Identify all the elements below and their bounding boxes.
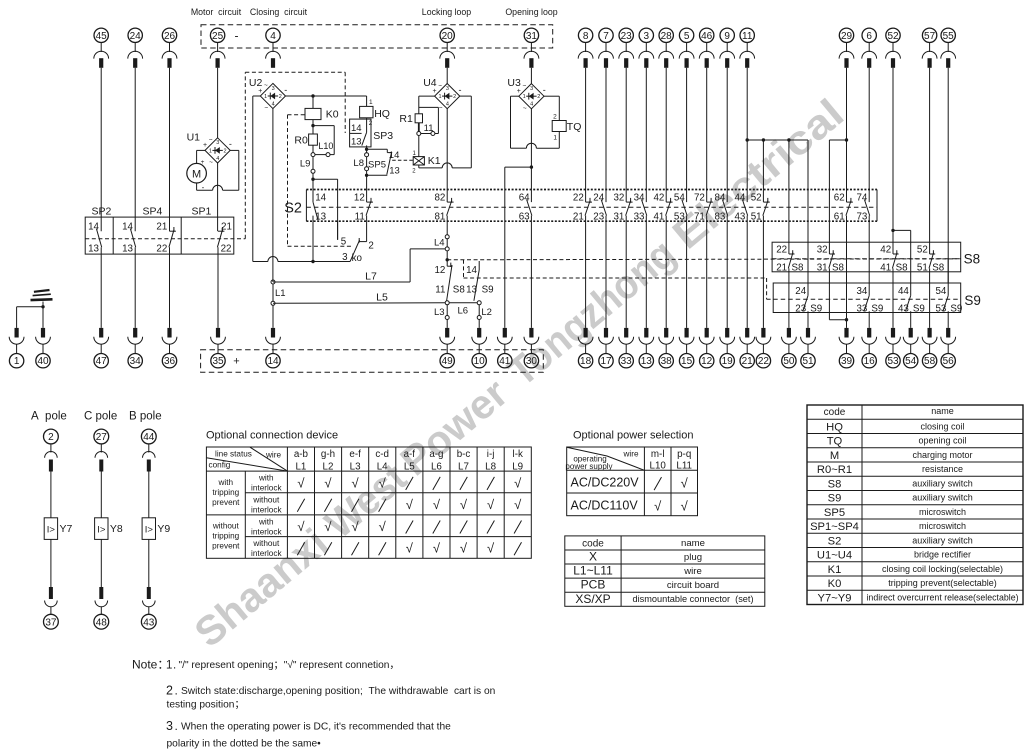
svg-text:√: √ [324,475,332,490]
svg-text:52: 52 [887,31,899,42]
svg-text:testing position；: testing position； [167,700,245,711]
svg-text:interlock: interlock [251,549,282,558]
wire branch to terminal 41 [505,167,532,328]
svg-text:12: 12 [434,265,445,276]
svg-text:K1: K1 [428,155,441,167]
svg-text:√: √ [681,499,689,514]
svg-text:√: √ [487,497,495,512]
bridge rectifier U4 [423,77,461,112]
svg-text:ko: ko [352,253,363,264]
terminal 41 bottom socket [497,328,512,368]
S8 contact 22/21 [776,242,804,273]
terminal 7 top plug [599,28,614,68]
svg-text:with: with [258,518,274,527]
wire R0 bypass loop L10 [313,126,334,157]
svg-text:22: 22 [156,244,167,255]
wire L5 [273,292,445,304]
terminal 14 bottom socket [266,328,281,368]
svg-text:10: 10 [474,356,486,367]
svg-text:42: 42 [653,193,664,204]
svg-text:1: 1 [369,99,373,106]
svg-text:X: X [589,550,597,564]
svg-text:a-b: a-b [294,449,309,460]
svg-text:√: √ [460,497,468,512]
wire through S9 col 32-31 branch [829,283,848,321]
overcurrent release Y8 [95,518,123,540]
svg-text:81: 81 [434,211,445,222]
svg-text:33: 33 [621,356,633,367]
S9 contact 34/33 [856,283,883,315]
svg-text:63: 63 [519,211,530,222]
wire link L8 [353,148,368,190]
svg-text:.: . [175,719,178,733]
wire terminal 5 down to S2 [686,68,688,190]
terminal 10 bottom socket [472,328,487,368]
wire U4 bottom to S2 [446,109,448,190]
terminal 8 top plug [578,28,593,68]
svg-text:L1~L11: L1~L11 [573,564,613,578]
terminal 13 bottom socket [639,328,654,368]
svg-text:50: 50 [783,356,795,367]
svg-text:53: 53 [887,356,899,367]
terminal 29 top plug [839,28,854,68]
svg-text:41: 41 [499,356,511,367]
svg-text:√: √ [324,519,332,534]
svg-text:11: 11 [424,123,434,134]
svg-text:31: 31 [817,263,828,274]
svg-text:37: 37 [45,617,57,628]
wire S8 to S9 x=788.9 [788,272,790,283]
wire SP4 contact to terminal 34 [134,247,136,328]
svg-text:without: without [212,522,240,531]
svg-text:~: ~ [264,82,268,89]
svg-text:.: . [173,660,176,672]
svg-text:57: 57 [924,31,936,42]
svg-text:U2: U2 [249,77,263,89]
svg-text:27: 27 [96,432,108,443]
svg-text:√: √ [297,519,305,534]
svg-text:wire: wire [265,451,281,460]
wire U2 left to lower loop [253,96,315,263]
svg-text:40: 40 [37,356,49,367]
wire SP1 contact to terminal 35 [217,247,219,328]
svg-text:PCB: PCB [581,578,606,592]
wire S2 down to terminal 19 [726,221,728,328]
note line 4 [166,719,451,733]
svg-text:code: code [824,407,846,418]
svg-text:Y7: Y7 [60,523,73,535]
svg-text:4: 4 [530,102,533,108]
wire S9 to terminal 54 [910,313,912,328]
svg-text:S2: S2 [828,535,842,547]
coil HQ [360,96,390,120]
svg-text:without: without [252,539,280,548]
svg-text:51: 51 [802,356,814,367]
svg-text:K0: K0 [828,578,842,590]
svg-text:14: 14 [122,222,133,233]
svg-text:auxiliary switch: auxiliary switch [912,493,973,503]
svg-text:L2: L2 [323,461,334,472]
svg-text:14: 14 [315,193,326,204]
svg-text:K1: K1 [828,564,842,576]
svg-text:S9: S9 [950,304,962,315]
svg-text:22: 22 [221,244,232,255]
svg-text:Motor circuit: Motor circuit [191,7,242,17]
svg-text:38: 38 [661,356,673,367]
svg-text:L5: L5 [404,461,415,472]
svg-text:prevent: prevent [212,498,240,507]
svg-text:Closing circuit: Closing circuit [250,7,308,17]
terminal 55 top plug [941,28,956,68]
terminal 33 bottom socket [619,328,634,368]
dashed box bottom plugs [201,350,544,373]
svg-text:43: 43 [143,617,155,628]
svg-text:b-c: b-c [457,449,471,460]
terminal 39 bottom socket [839,328,854,368]
svg-text:R0~R1: R0~R1 [817,464,852,476]
wire terminal 26 to SP4 second contact [169,68,171,231]
svg-text:S8: S8 [453,284,466,295]
wire terminal 25 to U1 [217,68,219,138]
wire U4 left to R1 [419,96,435,114]
S9 contact 44/43 [898,283,925,315]
svg-text:tripping prevent(selectable): tripping prevent(selectable) [888,578,997,588]
svg-text:S8: S8 [792,263,805,274]
wire S2 down to terminal 33 [625,221,627,328]
svg-text:39: 39 [841,356,853,367]
wire S8 to S9 x=910.7 [910,272,912,283]
svg-text:√: √ [514,475,522,490]
svg-text:interlock: interlock [251,528,282,537]
svg-text:~: ~ [523,105,527,112]
svg-text:interlock: interlock [251,484,282,493]
svg-text:a-g: a-g [429,449,443,460]
svg-text:R1: R1 [399,113,413,125]
dashed link to S8 row [447,259,961,260]
svg-text:L1: L1 [275,288,286,299]
S9 contact 24/23 [795,283,822,315]
svg-text:28: 28 [661,31,673,42]
svg-text:51: 51 [751,211,762,222]
svg-text:Locking loop: Locking loop [422,7,472,17]
terminal 31 top plug [524,28,539,68]
svg-text:56: 56 [943,356,955,367]
svg-text:c-d: c-d [375,449,389,460]
svg-text:without: without [252,495,280,504]
wire U2 right output [286,94,367,97]
svg-text:41: 41 [880,263,891,274]
wire terminal 23 down to S2 [625,68,627,190]
svg-text:71: 71 [694,211,705,222]
svg-text:M: M [830,450,839,462]
svg-text:~: ~ [439,105,443,112]
svg-text:14: 14 [351,123,362,134]
wire terminal 8 down to S2 [585,68,587,190]
terminal 12 bottom socket [699,328,714,368]
svg-text:closing coil locking(selectabl: closing coil locking(selectable) [882,564,1003,574]
svg-text:L9: L9 [300,158,311,169]
svg-text:83: 83 [714,211,725,222]
svg-text:~: ~ [264,105,268,112]
svg-text:I>: I> [145,525,154,536]
wire S2 down to terminal 12 [706,221,708,328]
svg-text:1: 1 [264,94,267,100]
svg-text:58: 58 [924,356,936,367]
dashed link to S9 row [464,260,774,300]
svg-text:14: 14 [389,150,400,161]
S2 contact 54/53 [674,190,687,223]
wire S2 62 down [846,221,848,242]
svg-text:1: 1 [523,94,526,100]
wire through S9 col 50 [788,283,790,313]
svg-text:S9: S9 [913,304,925,315]
svg-text:55: 55 [943,31,955,42]
svg-text:L7: L7 [365,270,377,282]
terminal 11 top plug [740,28,755,68]
wire U1 plus to motor [197,150,205,163]
terminal 28 top plug [659,28,674,68]
svg-text:21: 21 [156,222,167,233]
terminal 49 bottom socket [440,328,455,368]
svg-text:1: 1 [166,660,172,672]
svg-text:5: 5 [684,31,690,42]
S2 contact 74/73 [856,190,869,223]
terminal 18 bottom socket [578,328,593,368]
svg-text:45: 45 [96,31,108,42]
svg-text:24: 24 [593,193,604,204]
svg-text:indirect overcurrent release(s: indirect overcurrent release(selectable) [866,592,1018,602]
svg-text:13: 13 [122,244,133,255]
svg-text:21: 21 [742,356,754,367]
svg-text:L2: L2 [481,307,492,318]
svg-text:32: 32 [817,244,828,255]
svg-text:13: 13 [315,211,326,222]
svg-text:2: 2 [369,120,373,127]
pole terminal 43 [141,539,156,629]
svg-text:g-h: g-h [321,449,335,460]
wire through S9 col 53 [892,283,894,328]
svg-text:closing coil: closing coil [920,421,964,431]
svg-text:22: 22 [758,356,770,367]
svg-text:4: 4 [446,102,449,108]
auxiliary switch S2 box [284,190,877,222]
svg-text:with: with [258,474,274,483]
wire S9 to terminal 56 [947,313,949,328]
svg-text:I>: I> [97,525,106,536]
wire K0 to R0 [311,120,314,134]
svg-text:1: 1 [553,134,557,141]
svg-text:1: 1 [438,94,441,100]
svg-text:K0: K0 [326,108,339,120]
S2 contact 84/83 [714,190,727,223]
svg-text:1: 1 [209,148,212,154]
svg-text:~: ~ [523,82,527,89]
wire S9 to terminal 50 [788,313,790,328]
terminal 46 top plug [699,28,714,68]
svg-text:13: 13 [88,244,99,255]
svg-text:microswitch: microswitch [919,521,966,531]
svg-text:+: + [203,142,207,149]
svg-text:73: 73 [856,211,867,222]
svg-text:S8: S8 [828,478,842,490]
relay K1 [412,155,441,175]
svg-text:S9: S9 [828,493,842,505]
svg-text:e-f: e-f [349,449,361,460]
svg-text:4: 4 [270,31,276,42]
bus tap from wire 11 [746,138,809,189]
terminal 35 bottom socket [211,328,226,368]
svg-text:AC/DC110V: AC/DC110V [571,499,639,513]
terminal 24 top plug [128,28,143,68]
svg-text:23: 23 [795,304,806,315]
S8 contact 32/31 [817,242,845,273]
svg-text:√: √ [352,519,360,534]
svg-text:prevent: prevent [212,542,240,551]
svg-text:circuit board: circuit board [667,580,719,591]
wire through S8 col 54 [910,242,912,272]
svg-text:34: 34 [634,193,645,204]
terminal 20 top plug [440,28,455,68]
svg-text:8: 8 [583,31,589,42]
overcurrent release Y7 [44,518,72,540]
wire through S8 col 39 [846,242,848,272]
svg-text:43: 43 [734,211,745,222]
terminal 26 top plug [162,28,177,68]
terminal 47 bottom socket [94,328,109,368]
svg-text:84: 84 [714,193,725,204]
svg-text:+: + [201,159,205,166]
wire L6 link [449,303,477,317]
wire S2 down to S9 col 51 [807,190,809,243]
wire terminal 9 down to S2 [726,68,728,190]
svg-text:52: 52 [917,244,928,255]
svg-text:opening coil: opening coil [918,436,966,446]
svg-text:21: 21 [221,222,232,233]
S2 contact 42/41 [653,190,672,223]
svg-text:Switch state:discharge,opening: Switch state:discharge,opening position;… [181,686,495,697]
coil K0 [305,96,339,120]
bridge rectifier U1 [187,131,232,166]
svg-text:25: 25 [212,31,224,42]
svg-text:16: 16 [864,356,876,367]
svg-text:S8: S8 [964,252,981,267]
terminal 36 bottom socket [162,328,177,368]
wire through S8 col 56 [947,259,949,272]
terminal 50 bottom socket [782,328,797,368]
wire terminal 52 down [892,68,894,242]
svg-text:+: + [233,356,239,368]
svg-text:U3: U3 [507,77,521,89]
motor M circle [187,159,207,192]
wire S8 to S9 x=893.0 [892,272,894,283]
svg-text:S9: S9 [482,284,494,295]
svg-text:33: 33 [634,211,645,222]
wire terminal 31 to U3 [530,68,532,84]
wire S8 to S9 x=829.4 [828,272,830,283]
terminal 4 top plug [266,28,281,68]
svg-text:20: 20 [442,31,454,42]
svg-text:49: 49 [442,356,454,367]
svg-text:4: 4 [216,156,219,162]
svg-text:S8: S8 [832,263,845,274]
wire S8 to S9 x=869.2 [868,272,870,283]
bridge rectifier U2 [249,77,287,112]
pole terminal 2 [44,429,59,518]
svg-text:23: 23 [593,211,604,222]
svg-text:2: 2 [453,94,456,100]
wire S2 down to terminal 21 [746,221,748,328]
wire terminal 45 to SP2 contact [100,68,102,231]
svg-text:Opening loop: Opening loop [505,7,557,17]
svg-text:S9: S9 [964,293,981,308]
svg-text:44: 44 [734,193,745,204]
terminal 6 top plug [862,28,877,68]
pole terminal 27 [94,429,109,518]
svg-text:Y7~Y9: Y7~Y9 [818,592,852,604]
svg-text:2: 2 [279,94,282,100]
table code name big [807,405,1023,605]
svg-text:U1: U1 [187,131,201,143]
svg-text:64: 64 [519,193,530,204]
svg-text:Optional power selection: Optional power selection [573,430,693,442]
pole terminal 44 [141,429,156,518]
svg-text:18: 18 [580,356,592,367]
terminal 34 bottom socket [128,328,143,368]
S8 contact 52/51 [917,242,945,273]
wire terminal 55 down to S9 [947,68,949,283]
svg-text:13: 13 [466,284,477,295]
wire S2 down to terminal 22 [762,221,764,328]
svg-text:5: 5 [341,236,347,247]
svg-text:a-f: a-f [404,449,416,460]
svg-text:22: 22 [573,193,584,204]
svg-text:tripping: tripping [212,532,239,541]
svg-text:2: 2 [48,432,54,443]
svg-text:61: 61 [834,211,845,222]
svg-text:11: 11 [355,211,365,222]
dashed K0 select box [288,115,352,247]
svg-text:microswitch: microswitch [919,507,966,517]
svg-text:L1: L1 [295,461,306,472]
wire U3 left loop [511,96,537,148]
wire S2 82 to L4 link [434,221,449,266]
svg-text:SP1: SP1 [192,206,212,218]
svg-text:3: 3 [530,86,533,92]
svg-text:3: 3 [166,719,173,733]
svg-text:S8: S8 [932,263,945,274]
svg-text:24: 24 [130,31,142,42]
svg-text:72: 72 [694,193,705,204]
wire L2 link [477,301,492,328]
svg-text:resistance: resistance [922,464,963,474]
terminal 56 bottom socket [941,328,956,368]
terminal 16 bottom socket [862,328,877,368]
wire S2 74 down [868,221,870,242]
svg-text:√: √ [460,541,468,556]
svg-text:41: 41 [653,211,664,222]
svg-text:33: 33 [856,304,867,315]
svg-text:HQ: HQ [826,421,843,433]
svg-text:3: 3 [644,31,650,42]
terminal 15 bottom socket [679,328,694,368]
wire through S8 col 16 [868,242,870,272]
wire SP2 contact to terminal 47 [100,247,102,328]
table optional connection device [206,430,531,559]
dashed box secondary-circuit plugs [201,25,553,48]
svg-text:2: 2 [166,684,173,698]
overcurrent release Y9 [142,518,170,540]
svg-text:A pole: A pole [31,411,67,423]
